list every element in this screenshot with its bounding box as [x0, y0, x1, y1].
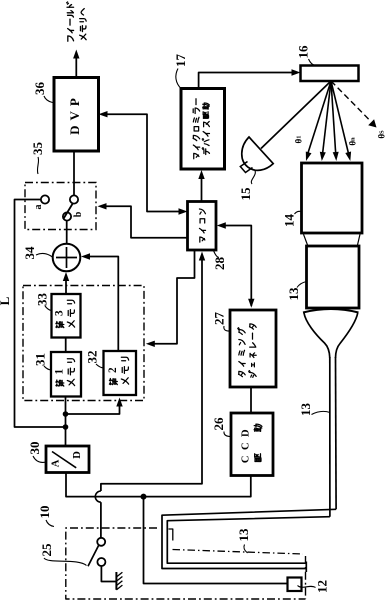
wire: DVP output arrow to field memory — [73, 50, 79, 78]
svg-text:2: 2 — [107, 367, 119, 373]
wire: junction to CCD 12 — [144, 497, 287, 584]
release switch 25 contact (bottom) — [97, 558, 105, 566]
wire: microcomputer to driver 17 (arrow) — [198, 170, 204, 202]
scope body 10 (dash-dot boundary) — [66, 528, 306, 599]
ref numeral 13 (bundle) — [286, 282, 307, 301]
block A/D 30 — [46, 446, 89, 473]
wire: memory1 to memory3 — [65, 338, 67, 353]
svg-text:15: 15 — [238, 187, 253, 201]
svg-text:27: 27 — [212, 312, 227, 326]
wire: A/D input from video line — [66, 473, 144, 497]
ref numeral 31 — [33, 353, 52, 370]
svg-text:36: 36 — [32, 82, 47, 96]
light guide bundle end face — [303, 309, 359, 313]
ref numeral 26 — [211, 417, 231, 437]
ref numeral 10 — [37, 506, 54, 527]
ray theta-1 — [306, 81, 331, 161]
ground — [116, 572, 122, 590]
switch box 35 (dash-dot) — [25, 183, 96, 230]
dashed ray theta-S — [331, 81, 377, 128]
svg-text:13: 13 — [298, 403, 313, 417]
wire: timing generator to microcomputer (arrows both ends) — [217, 222, 255, 307]
label b — [73, 211, 84, 217]
ref numeral 17 — [173, 54, 188, 90]
svg-text:26: 26 — [211, 417, 226, 431]
CCD chip 12 — [288, 578, 302, 592]
svg-text:30: 30 — [27, 442, 42, 455]
label: to field memory (フィールド メモリへ) — [67, 2, 87, 41]
light guide taper (funnel) — [304, 313, 358, 358]
svg-text:31: 31 — [33, 353, 48, 366]
svg-text:17: 17 — [173, 54, 188, 68]
svg-text:16: 16 — [296, 45, 311, 59]
label a — [33, 205, 44, 210]
ray 2 — [320, 81, 331, 161]
svg-text:25: 25 — [39, 543, 54, 557]
wire: release switch to microcomputer (with hop over video line) — [95, 252, 205, 538]
svg-text:10: 10 — [37, 506, 52, 519]
label theta-1 — [294, 136, 304, 144]
light guide tube (coiled run) — [162, 509, 336, 572]
ref numeral 33 — [35, 293, 52, 311]
wire: memory3 to adder bottom input — [63, 272, 69, 294]
ref numeral 28 — [212, 251, 227, 271]
ref numeral 34 — [22, 246, 53, 260]
ref numeral 35 — [30, 142, 45, 175]
wire: contact a to A/D output node — [15, 200, 66, 428]
switch 35 arm — [63, 203, 73, 219]
ray theta-n — [331, 81, 351, 161]
svg-text:13: 13 — [236, 528, 251, 542]
svg-text:L: L — [0, 296, 12, 305]
svg-text:34: 34 — [22, 246, 37, 260]
svg-text:DVP: DVP — [67, 93, 82, 135]
ref numeral 16 — [296, 45, 316, 66]
block CCD drive 26 (CCD駆動) — [231, 413, 273, 476]
wire: microcomputer to DVP (arrows both ends) — [99, 111, 188, 215]
wire: A/D to memory1 with branches — [63, 397, 123, 447]
switch 35 contact b — [63, 212, 71, 220]
wire: microcomputer to switch box 35 (arrow) — [98, 203, 187, 238]
frame L (dash-dot) — [23, 286, 144, 401]
svg-text:14: 14 — [282, 214, 297, 228]
block microcomputer 28 (マイコン) — [188, 202, 217, 251]
block micromirror device driver 17 (マイクロミラーデバイス駆動) — [181, 89, 225, 170]
svg-text:D: D — [72, 451, 83, 459]
svg-text:28: 28 — [212, 257, 227, 271]
svg-text:A: A — [51, 459, 62, 467]
ref numeral 14 — [282, 211, 302, 227]
ref numeral L — [0, 296, 12, 305]
ref numeral 25 — [39, 543, 87, 566]
svg-text:12: 12 — [315, 580, 330, 593]
wire: switch to ground — [101, 566, 115, 582]
svg-text:1: 1 — [54, 368, 66, 374]
wire: contact b to adder — [66, 221, 68, 244]
block timing generator 27 (タイミングジェネレータ) — [230, 310, 276, 387]
wire: driver 17 to micromirror 16 (arrow) — [199, 69, 301, 89]
svg-text:32: 32 — [85, 351, 100, 364]
lamp 15 (reflector) — [240, 137, 273, 173]
block DVP (36) — [54, 78, 99, 152]
ref numeral 36 — [32, 82, 53, 103]
svg-text:35: 35 — [30, 142, 45, 156]
svg-text:13: 13 — [286, 287, 301, 301]
ray: lamp to micromirror — [261, 81, 331, 149]
ray 3 — [331, 81, 339, 161]
ref numeral 32 — [85, 351, 104, 369]
svg-text:33: 33 — [35, 293, 50, 307]
insertion tube centerline lead-in — [169, 529, 173, 541]
light guide tube (vertical run) — [330, 357, 336, 517]
wire: DVP to switch pole — [73, 151, 75, 196]
svg-text:b: b — [73, 211, 84, 217]
insertion tube centerline (13) — [173, 550, 304, 555]
svg-text:3: 3 — [54, 310, 66, 316]
ref numeral 13 (coil) — [236, 528, 251, 553]
ref numeral 15 — [238, 171, 255, 201]
block light guide bundle 13 — [307, 246, 360, 308]
switch 35 contact a — [41, 195, 49, 203]
block lens unit 14 — [302, 163, 363, 233]
taper joints between 14 and 13 — [304, 234, 361, 245]
ref numeral 27 — [212, 312, 231, 332]
wire: video line junction to CCD drive — [141, 476, 251, 500]
svg-text:a: a — [33, 205, 44, 210]
label theta-S — [377, 130, 387, 139]
release switch 25 arm — [88, 545, 99, 566]
block memory1 31 (第1メモリ) — [51, 352, 81, 397]
adder 34 (circle with plus) — [53, 244, 81, 272]
ref numeral 13 (tube) — [298, 403, 330, 417]
wire: timing generator to CCD drive — [250, 387, 252, 413]
label theta-n — [348, 137, 358, 146]
block memory2 32 (第2メモリ) — [104, 351, 137, 395]
ref numeral 12 — [298, 580, 330, 593]
wire: memory2 to adder right input — [81, 253, 118, 351]
wire: microcomputer to memories L (arrow) — [146, 250, 195, 347]
switch 35 pole contact — [70, 195, 78, 203]
svg-text:CCD: CCD — [241, 424, 252, 463]
release switch 25 contact (top) — [97, 538, 105, 546]
micromirror device 16 — [301, 66, 359, 82]
block memory3 33 (第3メモリ) — [52, 294, 81, 338]
ref numeral 30 — [27, 442, 46, 463]
